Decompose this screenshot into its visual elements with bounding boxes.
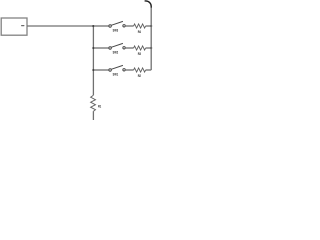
switch SW1 (109, 65, 125, 71)
svg-text:SW3: SW3 (113, 28, 119, 33)
resistor R3 (134, 46, 146, 50)
node right row1 (150, 25, 152, 27)
resistor R1 (91, 95, 96, 111)
svg-text:SW1: SW1 (113, 72, 119, 77)
wire row3 bus to SW1 (93, 69, 109, 71)
wire SW3 to R4 (125, 25, 134, 27)
wire source to bus (27, 25, 93, 27)
wire top arc corner (145, 1, 152, 8)
wire R3 to right bus (146, 47, 152, 49)
switch SW2 (109, 43, 125, 49)
svg-text:R1: R1 (98, 104, 101, 109)
switch SW3 (109, 21, 125, 27)
svg-text:SW2: SW2 (113, 50, 119, 55)
wire R2 to right bus corner (146, 69, 152, 71)
label inside box V1 (21, 25, 24, 26)
wire R1 to bottom edge (92, 111, 94, 120)
wire right bus vertical (150, 8, 152, 71)
node bus row3 (92, 69, 94, 71)
node bus row2 (92, 47, 94, 49)
wire row1 bus to SW3 (93, 25, 109, 27)
wire SW2 to R3 (125, 47, 134, 49)
svg-text:R2: R2 (138, 74, 141, 79)
node right row2 (150, 47, 152, 49)
resistor R4 (134, 24, 146, 28)
svg-text:R3: R3 (138, 52, 141, 57)
resistor R2 (134, 68, 146, 72)
wire R4 to right bus (146, 25, 152, 27)
wire row2 bus to SW2 (93, 47, 109, 49)
voltage source box V1 (1, 18, 27, 35)
wire SW1 to R2 (125, 69, 134, 71)
node bus top (92, 25, 94, 27)
svg-text:R4: R4 (138, 30, 141, 35)
wire left bus vertical (92, 26, 94, 95)
